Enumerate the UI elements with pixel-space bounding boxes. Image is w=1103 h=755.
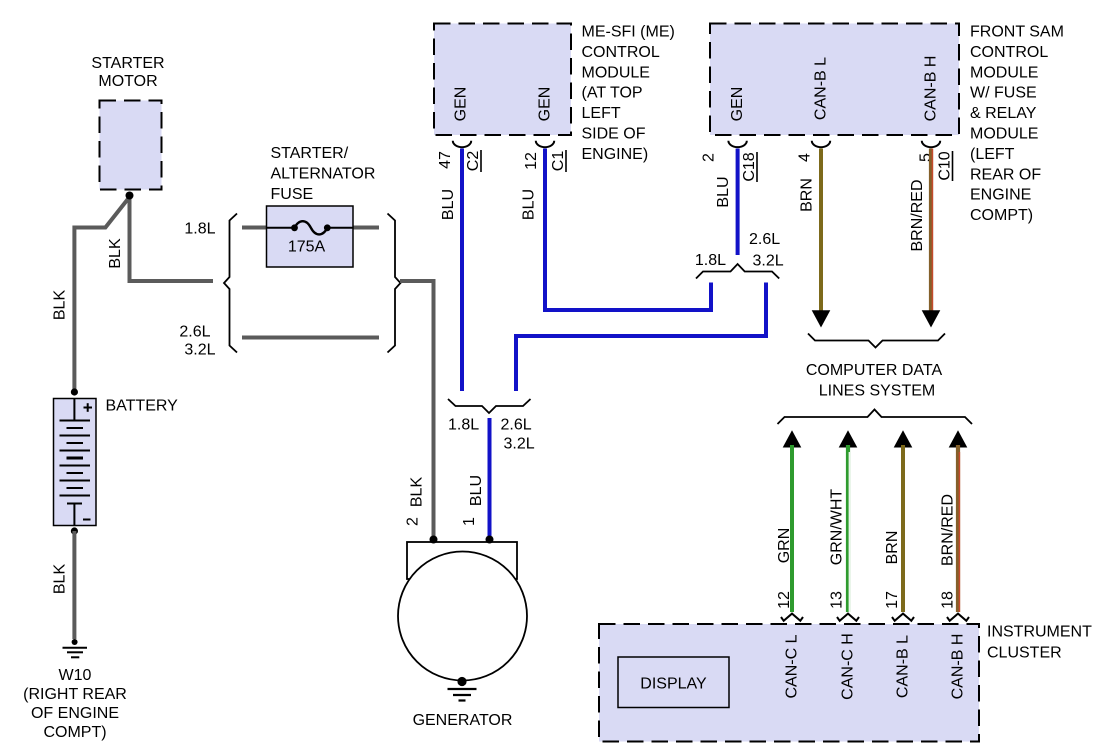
wire BLU from pin 12: [545, 149, 711, 311]
svg-text:CAN-B H: CAN-B H: [950, 634, 967, 700]
pin number 13: [829, 591, 846, 609]
connector label C18: [741, 152, 758, 182]
svg-text:2.6L: 2.6L: [501, 417, 532, 434]
svg-text:ALTERNATOR: ALTERNATOR: [271, 166, 376, 183]
svg-text:(LEFT: (LEFT: [970, 146, 1015, 163]
wire BLU from pin 47: [460, 149, 464, 392]
wire BLK battery to ground: [72, 531, 76, 639]
ME-SFI label GEN pin12: [537, 87, 554, 122]
pin number 18: [940, 591, 957, 609]
svg-text:MODULE: MODULE: [970, 64, 1038, 81]
pin number 17: [884, 591, 901, 609]
svg-text:BLU: BLU: [715, 176, 732, 207]
svg-text:1.8L: 1.8L: [695, 252, 726, 269]
wire BLU 2.6L/3.2L branch to lower merge: [516, 283, 766, 392]
wire BRN from SAM pin 4: [819, 149, 823, 313]
svg-text:1.8L: 1.8L: [184, 221, 215, 238]
svg-text:DISPLAY: DISPLAY: [640, 676, 707, 693]
pin number 12: [523, 152, 540, 170]
svg-text:4: 4: [797, 153, 814, 162]
brace under SAM arrows: [808, 334, 945, 348]
svg-text:OF ENGINE: OF ENGINE: [31, 705, 119, 722]
svg-text:GEN: GEN: [453, 87, 470, 122]
ME-SFI control module U1 box: [434, 24, 571, 136]
svg-text:12: 12: [523, 152, 540, 170]
svg-text:STARTER/: STARTER/: [271, 145, 349, 162]
pin number 4: [797, 153, 814, 162]
wire BLU from SAM pin 2: [736, 149, 740, 256]
svg-text:CAN-B H: CAN-B H: [923, 56, 940, 122]
connector label C2: [465, 150, 482, 172]
generator case ground: [448, 677, 477, 701]
connector cup cluster pin 12: [781, 614, 803, 621]
svg-text:BLU: BLU: [468, 475, 485, 506]
brace generator merge (lower): [448, 399, 531, 413]
svg-text:LINES SYSTEM: LINES SYSTEM: [819, 383, 935, 400]
display box: [618, 657, 729, 708]
svg-text:CAN-B L: CAN-B L: [813, 57, 830, 120]
svg-text:W/ FUSE: W/ FUSE: [970, 85, 1037, 102]
svg-text:1.8L: 1.8L: [448, 417, 479, 434]
label BLU (pin 47 wire): [440, 189, 457, 220]
ground W10: [63, 639, 88, 657]
svg-text:3.2L: 3.2L: [753, 253, 784, 270]
wire BLK fuse output to generator: [400, 281, 434, 537]
svg-text:CONTROL: CONTROL: [970, 44, 1048, 61]
svg-text:12: 12: [776, 591, 793, 609]
node battery top: [71, 388, 78, 395]
arrow up BRN: [894, 430, 913, 447]
label GRN/WHT: [829, 489, 846, 566]
starter motor M1 box: [100, 101, 162, 190]
connector cup cluster pin 13: [837, 614, 859, 621]
connector cup pin 12: [536, 141, 554, 147]
svg-text:GEN: GEN: [537, 87, 554, 122]
wire GRN/WHT cluster pin 13: [846, 445, 850, 612]
svg-text:2.6L: 2.6L: [179, 324, 210, 341]
svg-text:CLUSTER: CLUSTER: [987, 645, 1062, 662]
label BLU (pin 12 wire): [521, 189, 538, 220]
svg-text:GEN: GEN: [729, 87, 746, 122]
connector cup cluster pin 18: [947, 614, 969, 621]
svg-text:1: 1: [461, 517, 478, 526]
svg-text:18: 18: [940, 591, 957, 609]
pin number 47: [437, 151, 454, 169]
svg-text:ME-SFI (ME): ME-SFI (ME): [582, 24, 675, 41]
svg-text:BLU: BLU: [521, 189, 538, 220]
svg-text:CONTROL: CONTROL: [582, 44, 660, 61]
wire BRN/RED from SAM pin 5: [929, 149, 933, 313]
wire BLU merge to generator: [488, 418, 492, 537]
svg-text:C18: C18: [741, 152, 758, 181]
arrow down BRN/RED: [922, 310, 941, 327]
svg-text:GRN/WHT: GRN/WHT: [829, 489, 846, 566]
fuse F1 175A: [267, 206, 354, 267]
svg-text:BLK: BLK: [409, 477, 426, 508]
svg-text:13: 13: [829, 591, 846, 609]
generator pin 2 label: [405, 517, 422, 526]
junction node at starter motor: [126, 192, 134, 200]
label GRN: [776, 528, 793, 564]
svg-text:BATTERY: BATTERY: [106, 398, 179, 415]
generator G2: [398, 536, 527, 681]
brace left of fuse: [224, 214, 237, 353]
connector label C1: [550, 150, 567, 172]
battery G1: [54, 399, 97, 526]
label BLK (starter-battery wire): [52, 290, 69, 321]
cluster label CAN-C L: [784, 634, 801, 698]
label BLK (starter-fuse wire): [107, 238, 124, 269]
cluster label CAN-B L: [895, 635, 912, 698]
svg-text:3.2L: 3.2L: [504, 436, 535, 453]
wire BLK starter to fuse brace: [130, 196, 214, 282]
svg-text:MODULE: MODULE: [582, 64, 650, 81]
svg-text:BRN/RED: BRN/RED: [909, 179, 926, 251]
wire 1.8L fuse rail: [242, 226, 267, 230]
svg-text:COMPT): COMPT): [970, 207, 1033, 224]
arrow up GRN/WHT: [839, 430, 858, 447]
arrow up GRN: [783, 430, 802, 447]
svg-text:GRN: GRN: [776, 528, 793, 564]
label BLK (battery-ground wire): [52, 564, 69, 595]
svg-text:2: 2: [405, 517, 422, 526]
wire BLK starter to battery: [74, 197, 129, 390]
svg-text:BLK: BLK: [52, 564, 69, 595]
cluster label CAN-B H: [950, 634, 967, 700]
svg-text:17: 17: [884, 591, 901, 609]
pin number 12: [776, 591, 793, 609]
brace right of fuse: [388, 214, 401, 353]
connector cup cluster pin 17: [892, 614, 914, 621]
wire 2.6L 3.2L bypass rail: [242, 336, 379, 340]
label BRN/RED (cluster): [940, 494, 957, 566]
svg-text:CAN-C H: CAN-C H: [840, 633, 857, 700]
pin number 5: [918, 153, 935, 162]
svg-text:REAR OF: REAR OF: [970, 166, 1041, 183]
SAM label CAN-B L: [813, 57, 830, 120]
cluster label CAN-C H: [840, 633, 857, 700]
svg-text:2.6L: 2.6L: [749, 231, 780, 248]
label BLK (generator wire): [409, 477, 426, 508]
svg-text:ENGINE): ENGINE): [582, 146, 649, 163]
generator pin 1 label: [461, 517, 478, 526]
SAM label GEN: [729, 87, 746, 122]
svg-text:COMPUTER DATA: COMPUTER DATA: [806, 362, 943, 379]
brace above cluster arrows: [778, 410, 973, 425]
svg-text:C2: C2: [465, 151, 482, 172]
svg-text:LEFT: LEFT: [582, 105, 621, 122]
label BLU (SAM pin 2 wire): [715, 176, 732, 207]
svg-text:INSTRUMENT: INSTRUMENT: [987, 624, 1092, 641]
label BRN/RED (SAM pin 5 wire): [909, 179, 926, 251]
arrow up BRN/RED: [949, 430, 968, 447]
connector cup SAM pin 2: [728, 141, 746, 147]
svg-text:FUSE: FUSE: [271, 186, 314, 203]
svg-text:FRONT SAM: FRONT SAM: [970, 24, 1064, 41]
svg-text:COMPT): COMPT): [43, 724, 106, 741]
node battery bottom: [71, 527, 78, 534]
SAM label CAN-B H: [923, 56, 940, 122]
svg-text:(RIGHT REAR: (RIGHT REAR: [23, 686, 127, 703]
connector label C10: [937, 151, 954, 181]
svg-text:CAN-C L: CAN-C L: [784, 634, 801, 698]
arrow down BRN: [812, 310, 831, 327]
connector cup pin 47: [453, 141, 471, 147]
front SAM control module box: [710, 24, 959, 136]
svg-text:BLK: BLK: [52, 290, 69, 321]
svg-text:BRN: BRN: [799, 178, 816, 212]
connector cup SAM pin 5: [922, 141, 940, 147]
svg-text:CAN-B L: CAN-B L: [895, 635, 912, 698]
wire GRN cluster pin 12: [790, 445, 794, 612]
SAM description: [970, 24, 1064, 225]
ME-SFI label GEN pin47: [453, 87, 470, 122]
svg-text:BRN/RED: BRN/RED: [940, 494, 957, 566]
svg-text:STARTER: STARTER: [91, 55, 164, 72]
pin number 2: [701, 153, 718, 162]
label BRN (cluster): [884, 531, 901, 565]
ME-SFI description: [582, 24, 675, 163]
svg-text:C10: C10: [937, 151, 954, 180]
wire BRN/RED cluster pin 18: [956, 445, 960, 612]
label BRN (SAM pin 4 wire): [799, 178, 816, 212]
svg-text:W10: W10: [59, 667, 92, 684]
wire BRN cluster pin 17: [901, 445, 905, 612]
svg-text:SIDE OF: SIDE OF: [582, 126, 646, 143]
svg-text:& RELAY: & RELAY: [970, 105, 1037, 122]
svg-text:47: 47: [437, 151, 454, 169]
svg-text:(AT TOP: (AT TOP: [582, 85, 643, 102]
svg-text:175A: 175A: [288, 239, 326, 256]
svg-text:MOTOR: MOTOR: [98, 73, 157, 90]
svg-text:GENERATOR: GENERATOR: [413, 712, 513, 729]
label BLU (generator wire): [468, 475, 485, 506]
svg-text:2: 2: [701, 153, 718, 162]
svg-text:3.2L: 3.2L: [184, 342, 215, 359]
svg-text:BLU: BLU: [440, 189, 457, 220]
svg-text:BRN: BRN: [884, 531, 901, 565]
svg-text:BLK: BLK: [107, 238, 124, 269]
connector cup SAM pin 4: [812, 141, 830, 147]
instrument cluster box: [599, 624, 979, 742]
svg-text:MODULE: MODULE: [970, 126, 1038, 143]
svg-text:ENGINE: ENGINE: [970, 187, 1031, 204]
svg-text:C1: C1: [550, 151, 567, 172]
brace 1.8L/2.6L-3.2L merge (upper): [696, 264, 779, 279]
